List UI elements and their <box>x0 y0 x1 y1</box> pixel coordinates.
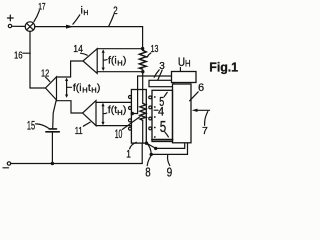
svg-text:f(t: f(t <box>108 104 117 116</box>
label 11 <box>75 122 91 137</box>
svg-text:8: 8 <box>145 164 150 179</box>
label UH <box>178 57 191 71</box>
electrode circle <box>149 127 152 130</box>
label 17 <box>34 2 46 22</box>
output wire to voltmeter <box>138 75 172 77</box>
label 8 <box>145 156 151 179</box>
label 10 <box>115 117 140 141</box>
label 13 <box>147 44 159 57</box>
heater winding 10 <box>140 103 146 120</box>
current arrow iH <box>66 25 74 29</box>
wire C hook <box>151 143 187 154</box>
node A box corner <box>145 142 148 145</box>
terminal circle <box>129 107 132 110</box>
wire amp12 top to amp14 <box>57 61 84 77</box>
label f(iH tH) <box>73 82 101 95</box>
node hall tap <box>131 112 134 115</box>
label 16 <box>14 51 30 62</box>
arrow f(iH tH) <box>65 78 72 98</box>
bus wire bottom <box>11 163 143 165</box>
label 6 <box>190 82 205 101</box>
capacitor 15 <box>46 129 59 132</box>
pole piece slab <box>149 80 174 86</box>
svg-text:H: H <box>82 85 87 94</box>
label iH <box>73 5 89 25</box>
wire amp12 bottom to amp11 <box>56 101 82 113</box>
node top of coil <box>141 47 144 50</box>
wire top rail <box>35 26 143 28</box>
arrow f(iH) <box>102 49 107 71</box>
wire amp14 top output <box>97 48 142 50</box>
node C <box>150 153 153 156</box>
terminal circle <box>129 119 132 122</box>
label 12 <box>41 68 50 81</box>
terminal circle <box>129 127 132 130</box>
svg-text:7: 7 <box>202 125 208 137</box>
wire amp11 top output <box>96 101 131 103</box>
svg-text:10: 10 <box>115 127 123 141</box>
svg-text:16: 16 <box>14 51 23 62</box>
label 14 <box>73 43 87 55</box>
svg-text:1: 1 <box>126 148 131 160</box>
wire from multiplier down <box>29 31 31 88</box>
inductor 13 <box>139 50 146 69</box>
amplifier 12 <box>46 77 57 100</box>
svg-text:H: H <box>185 59 191 69</box>
hall plate box 4 <box>152 90 173 141</box>
svg-text:Fig.1: Fig.1 <box>209 60 238 74</box>
svg-text:): ) <box>123 55 127 67</box>
svg-text:13: 13 <box>151 44 159 55</box>
wire rail corner down <box>142 27 144 49</box>
label 2 <box>109 5 118 26</box>
voltmeter box UH <box>172 72 197 83</box>
label 1 <box>126 142 136 160</box>
hall generator box 1 <box>131 90 146 144</box>
node bottom of coil <box>141 70 144 73</box>
hall tap wire up <box>132 76 137 114</box>
label 9 <box>167 155 173 179</box>
amplifier 14 <box>83 49 97 74</box>
node bus junction <box>51 162 54 165</box>
svg-text:f(i: f(i <box>73 82 82 94</box>
wire A to B <box>147 143 156 148</box>
label f(iH) <box>108 55 126 68</box>
arrow f(tH) <box>101 103 106 126</box>
svg-text:f(i: f(i <box>108 55 117 67</box>
heater to box bottom <box>142 120 144 143</box>
svg-text:4: 4 <box>158 104 164 118</box>
magnet bar 6 <box>173 84 192 143</box>
wire amp14 bottom output <box>97 71 143 73</box>
plate dots <box>154 96 156 138</box>
arrow 7 <box>192 109 210 137</box>
label f(tH) <box>108 104 127 117</box>
node B <box>154 147 157 150</box>
svg-text:): ) <box>97 82 101 94</box>
wire B hook <box>156 143 185 148</box>
amplifier 11 <box>83 101 96 126</box>
wire plus to multiplier <box>12 25 25 27</box>
svg-text:): ) <box>123 104 127 116</box>
svg-text:H: H <box>83 10 88 17</box>
terminal circle <box>129 96 132 99</box>
svg-text:9: 9 <box>167 165 173 180</box>
svg-text:15: 15 <box>27 119 35 133</box>
inner bottom line <box>152 139 173 141</box>
electrode circle <box>149 117 152 120</box>
wire cap to bus <box>51 132 53 163</box>
label 4 <box>154 104 164 118</box>
excitation wire down from coil <box>142 72 144 103</box>
svg-text:6: 6 <box>198 82 204 94</box>
wire amp11 bottom output <box>96 125 131 127</box>
wire A to C <box>147 144 151 155</box>
electrode circle <box>149 106 152 109</box>
svg-text:11: 11 <box>75 126 83 137</box>
label 3 <box>154 61 165 81</box>
multiplier 17 <box>25 22 35 32</box>
capacitor riser from amp12 <box>53 100 57 128</box>
electrode circle <box>149 96 152 99</box>
wire into amp 12 <box>30 87 46 89</box>
minus terminal <box>3 162 11 168</box>
bus riser to hall box <box>141 143 143 163</box>
plus terminal <box>7 15 13 28</box>
label 15 <box>27 119 49 133</box>
